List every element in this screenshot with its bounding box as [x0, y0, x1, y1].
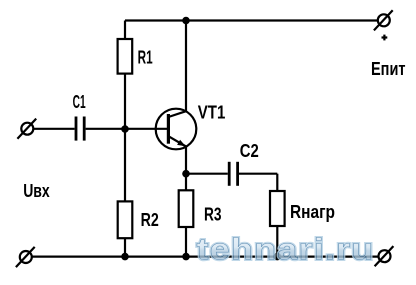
- transistor VT1: [156, 109, 197, 150]
- node Rnagr-rail junction: [274, 253, 282, 261]
- node collector-rail junction: [182, 17, 190, 25]
- wire base node to transistor base: [125, 128, 168, 130]
- capacitor C2: [229, 162, 237, 186]
- wire R2 bottom lead: [124, 238, 126, 256]
- wire R3 bottom lead: [185, 227, 187, 257]
- wire down to Rload: [276, 174, 278, 192]
- svg-text:tehnari.ru: tehnari.ru: [197, 232, 375, 267]
- wire top rail: [125, 19, 378, 21]
- wire R3 top lead: [185, 174, 187, 191]
- resistor Rnagr: [270, 191, 285, 226]
- resistor R3: [179, 190, 194, 227]
- terminal input: [17, 119, 36, 139]
- label plus: [382, 35, 388, 41]
- wire R1 bottom lead: [124, 74, 126, 129]
- node base junction: [121, 125, 129, 133]
- wire R2 top lead: [124, 129, 126, 202]
- terminal ground bottom-left: [16, 247, 35, 267]
- svg-text:C2: C2: [240, 141, 259, 161]
- terminal ground bottom-right: [375, 246, 394, 266]
- wire C2 to load branch: [239, 173, 277, 175]
- wire collector lead: [185, 21, 187, 112]
- wire emitter lead: [185, 146, 187, 174]
- svg-text:R3: R3: [204, 204, 222, 224]
- resistor R1: [118, 39, 133, 74]
- svg-text:Eпит: Eпит: [371, 59, 406, 79]
- capacitor C1: [76, 117, 84, 141]
- terminal supply top-right: [374, 10, 393, 30]
- svg-text:C1: C1: [73, 92, 86, 112]
- wire bottom rail: [32, 256, 378, 258]
- node R3-rail junction: [182, 253, 190, 261]
- svg-text:R2: R2: [141, 210, 159, 230]
- watermark tehnari.ru: [197, 232, 375, 267]
- svg-text:VT1: VT1: [198, 103, 226, 123]
- svg-text:R1: R1: [138, 47, 153, 67]
- node emitter junction: [182, 170, 190, 178]
- wire input to C1: [34, 128, 75, 130]
- wire R1 top lead: [124, 21, 126, 40]
- wire emitter node to C2: [186, 173, 228, 175]
- svg-text:Uвх: Uвх: [23, 181, 50, 201]
- svg-text:Rнагр: Rнагр: [290, 202, 335, 222]
- wire Rnagr bottom lead: [276, 226, 278, 257]
- resistor R2: [118, 201, 133, 238]
- wire C1 to base node: [86, 128, 125, 130]
- node R2-rail junction: [121, 253, 129, 261]
